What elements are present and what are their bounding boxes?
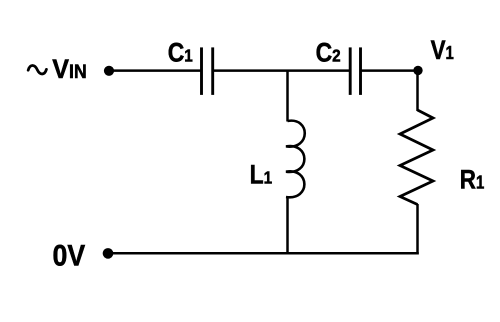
node V1 xyxy=(413,36,454,75)
wire xyxy=(286,197,289,255)
AC source symbol xyxy=(28,65,46,73)
svg-text:V1: V1 xyxy=(431,36,454,65)
wire xyxy=(360,69,418,72)
svg-text:C1: C1 xyxy=(168,38,193,68)
node VIN xyxy=(104,66,114,76)
wire xyxy=(416,204,419,254)
wire xyxy=(212,69,351,72)
wire xyxy=(108,252,419,255)
svg-text:C2: C2 xyxy=(316,38,341,68)
wire xyxy=(109,69,203,72)
wire xyxy=(286,71,289,122)
svg-text:VIN: VIN xyxy=(52,53,86,84)
node 0V xyxy=(103,248,114,259)
capacitor C1 xyxy=(168,38,213,95)
svg-text:R1: R1 xyxy=(460,166,484,195)
resistor R1 xyxy=(400,110,484,205)
wire xyxy=(416,71,419,111)
svg-text:L1: L1 xyxy=(250,160,273,190)
capacitor C2 xyxy=(316,38,361,95)
svg-text:0V: 0V xyxy=(53,239,86,273)
inductor L1 xyxy=(250,121,305,198)
